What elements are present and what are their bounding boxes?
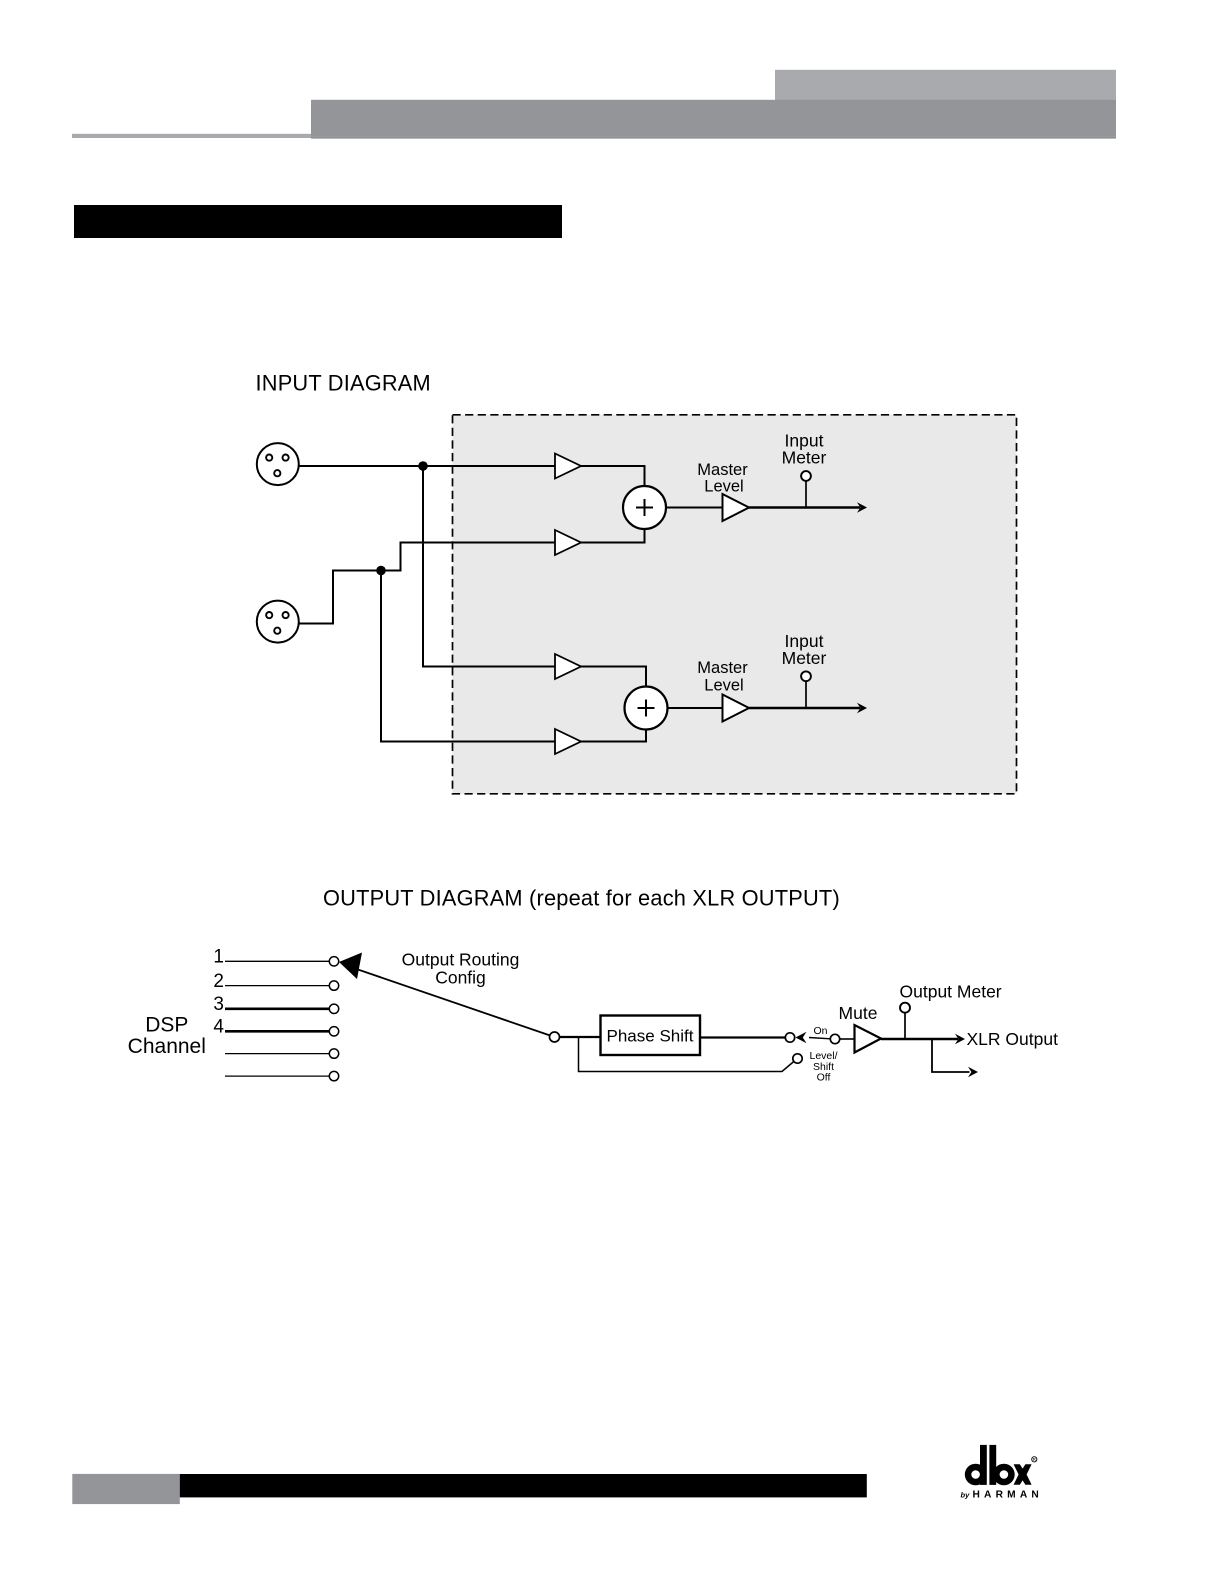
svg-text:Phase Shift: Phase Shift: [607, 1027, 694, 1046]
input meter probe 2: [805, 681, 807, 708]
svg-text:4: 4: [213, 1017, 224, 1038]
wire M1 output with arrow: [749, 506, 860, 509]
svg-text:Meter: Meter: [782, 648, 827, 668]
registered mark: [1032, 1457, 1037, 1462]
wire XLR2 up to node J2: [299, 571, 382, 624]
XLR input connector 2: [257, 601, 299, 643]
svg-text:INPUT DIAGRAM: INPUT DIAGRAM: [256, 371, 431, 396]
svg-text:Level: Level: [704, 478, 743, 496]
wire XLR1 to amp A1: [300, 465, 556, 467]
DSP channel 6: [225, 1075, 329, 1077]
switch common node: [830, 1034, 839, 1043]
master level amp M1: [723, 494, 750, 521]
d bowl: [965, 1464, 987, 1486]
amp A4: [555, 729, 581, 754]
svg-text:On: On: [813, 1025, 827, 1037]
phase shift block: [601, 1016, 701, 1056]
header thin gray rule (left): [72, 134, 311, 138]
svg-text:Meter: Meter: [782, 447, 827, 467]
svg-text:Level: Level: [704, 677, 743, 695]
DSP channel 5: [225, 1053, 329, 1055]
svg-text:Master: Master: [697, 461, 748, 479]
summer S2: [625, 687, 668, 730]
header light gray tab (top right): [775, 70, 1116, 101]
svg-text:2: 2: [213, 971, 224, 992]
x glyph: [1014, 1464, 1032, 1485]
svg-text:DSP: DSP: [145, 1014, 188, 1037]
input section dashed box: [453, 415, 1017, 794]
input meter probe 1: [805, 481, 807, 508]
node: shift-on switch contact: [785, 1033, 794, 1042]
amp A1: [555, 454, 581, 479]
svg-text:by: by: [961, 1491, 971, 1500]
master level amp M2: [723, 695, 750, 722]
selector pivot node: [550, 1032, 560, 1042]
svg-text:Mute: Mute: [839, 1003, 878, 1023]
wire M2 output with arrow: [749, 707, 860, 710]
svg-text:XLR Output: XLR Output: [967, 1029, 1059, 1049]
b stem: [989, 1445, 996, 1485]
d stem: [980, 1445, 987, 1485]
wire J2 down to amp A4: [381, 571, 555, 742]
wire J2 to amp A2: [381, 543, 555, 571]
XLR input connector 1: [257, 443, 299, 485]
footer gray block: [72, 1474, 180, 1504]
svg-text:Output Meter: Output Meter: [900, 982, 1002, 1002]
wire mute to XLR output with arrow: [881, 1038, 958, 1041]
output routing selector wiper wire: [353, 968, 555, 1037]
switch wiper arrow (points left): [796, 1032, 807, 1043]
selector arrowhead at channel 1: [339, 953, 362, 980]
black title bar: [74, 205, 562, 238]
wire branch to second output with arrow: [932, 1039, 970, 1072]
svg-text:OUTPUT DIAGRAM (repeat for eac: OUTPUT DIAGRAM (repeat for each XLR OUTP…: [323, 886, 840, 911]
wire amp A1 to summer S1: [581, 466, 645, 486]
wire pivot to phase shift: [560, 1036, 601, 1038]
wire J1 down to amp A3: [423, 466, 555, 667]
svg-text:Channel: Channel: [128, 1035, 206, 1058]
wire summer S1 to master level M1: [666, 507, 722, 509]
node: shift-off switch contact: [793, 1054, 802, 1063]
output meter probe: [904, 1013, 906, 1040]
amp A2: [555, 530, 581, 555]
svg-text:Off: Off: [817, 1072, 831, 1084]
header main gray bar: [311, 100, 1116, 136]
wire switch to mute amp: [840, 1038, 855, 1040]
wire summer S2 to master level M2: [668, 707, 723, 709]
amp A3: [555, 654, 581, 679]
svg-text:1: 1: [213, 947, 224, 968]
svg-text:Output Routing: Output Routing: [402, 950, 520, 970]
dbx logo: [961, 1445, 1043, 1501]
mute amp: [855, 1025, 882, 1053]
svg-text:Config: Config: [435, 968, 486, 988]
summer S1: [623, 486, 666, 529]
svg-text:HARMAN: HARMAN: [973, 1490, 1043, 1501]
wire amp A4 to summer S2: [581, 730, 646, 742]
svg-text:3: 3: [213, 994, 224, 1015]
b bowl: [993, 1464, 1015, 1486]
node J1 (XLR1 junction): [418, 461, 428, 471]
wire phase shift out to switch contact: [700, 1036, 785, 1038]
wire amp A3 to summer S2: [581, 667, 646, 687]
wire bypass (shift off path): [579, 1037, 794, 1072]
svg-text:Master: Master: [697, 659, 748, 677]
wire amp A2 to summer S1: [581, 529, 645, 543]
node J2 (XLR2 junction): [376, 566, 386, 576]
footer black bar: [180, 1474, 867, 1497]
